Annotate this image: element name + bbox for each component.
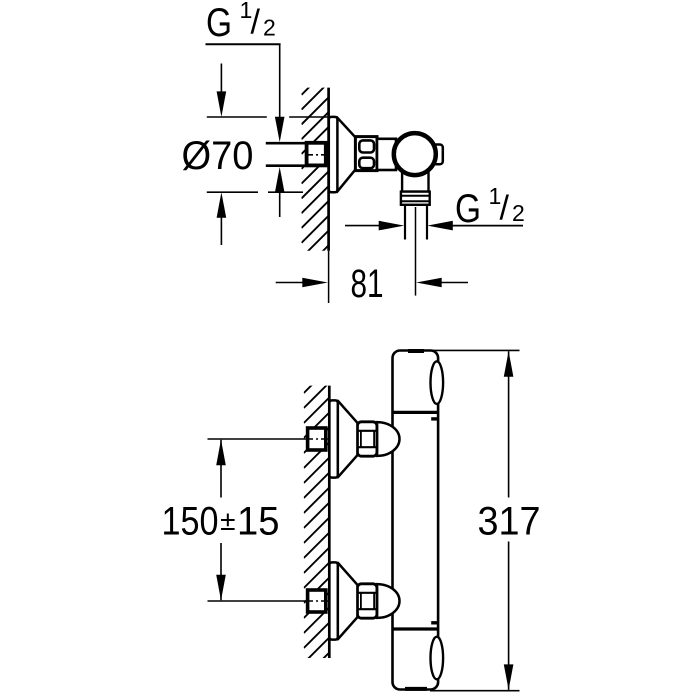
svg-text:Ø70: Ø70	[182, 134, 254, 178]
svg-text:G: G	[455, 187, 481, 231]
svg-text:/: /	[500, 189, 510, 227]
svg-text:15: 15	[237, 500, 280, 544]
svg-text:2: 2	[263, 14, 276, 40]
svg-text:317: 317	[478, 500, 541, 544]
svg-text:81: 81	[351, 262, 384, 306]
svg-text:±: ±	[220, 505, 235, 536]
svg-text:/: /	[251, 4, 261, 42]
svg-text:G: G	[206, 1, 232, 45]
svg-text:2: 2	[512, 200, 525, 226]
svg-text:150: 150	[162, 500, 219, 544]
